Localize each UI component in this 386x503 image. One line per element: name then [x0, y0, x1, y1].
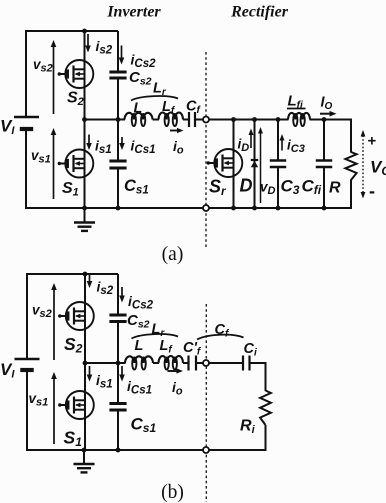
wire top rail (b)	[27, 273, 118, 275]
svg-text:Inverter: Inverter	[106, 4, 161, 21]
svg-text:D: D	[240, 176, 253, 196]
arrow vs2 (b)	[32, 283, 57, 360]
arrow vs1 (a)	[31, 128, 56, 199]
wire rectifier top rail (a)	[209, 119, 289, 121]
junction D top (a)	[252, 117, 257, 122]
wire Cfi branch (a)	[323, 120, 325, 161]
label Cf with brace (b)	[197, 322, 244, 340]
node top (b)	[203, 360, 209, 366]
wire D branch (a)	[254, 120, 256, 209]
dashed boundary (b)	[205, 304, 207, 502]
resistor R (a)	[329, 152, 357, 197]
capacitor Ci (b)	[243, 341, 257, 371]
wire left upper (b)	[26, 273, 28, 359]
capacitor Cs1 (b)	[109, 404, 156, 436]
wire R corner down (a)	[350, 119, 352, 153]
wire mid rail (b)	[85, 362, 126, 364]
junction mid S (b)	[83, 361, 88, 366]
junction bottom Cs1 (b)	[116, 448, 121, 453]
wire S1 branch (b)	[84, 363, 86, 450]
junction Cfi bottom (a)	[322, 206, 327, 211]
wire bottom rail (a)	[25, 207, 351, 209]
node top (a)	[203, 117, 209, 123]
capacitor Cf (a)	[186, 99, 201, 128]
wire mid rail (a)	[85, 119, 126, 121]
arrow iCs1 (b)	[119, 366, 152, 397]
inductor Lfi (a)	[287, 93, 310, 127]
wire S2 branch (b)	[84, 274, 86, 363]
wire Lfi-corner (a)	[310, 119, 352, 121]
capacitor Cs2 (a)	[109, 69, 151, 88]
junction Sr top (a)	[231, 117, 236, 122]
arrow vD (a)	[258, 127, 276, 203]
wire L-Lf (b)	[153, 362, 159, 364]
dashed boundary (a)	[205, 52, 207, 247]
capacitor Cfi (a)	[302, 161, 333, 198]
transistor Sr (a)	[207, 149, 243, 198]
wire Cs1 branch (a)	[117, 120, 119, 162]
junction Sr bottom (a)	[231, 206, 236, 211]
arrow VC (a)	[361, 130, 386, 201]
svg-text:L: L	[134, 101, 143, 117]
junction bottom gnd (a)	[82, 206, 87, 211]
svg-text:Rectifier: Rectifier	[230, 4, 289, 21]
wire top rail (a)	[26, 30, 118, 32]
battery Vi (b)	[0, 359, 40, 381]
transistor S2 (a)	[58, 60, 94, 108]
arrow io (b)	[168, 368, 184, 397]
inductor L (a)	[125, 101, 153, 127]
junction top S2 (a)	[82, 29, 87, 34]
arrow iCs2 (b)	[119, 287, 153, 312]
wire Cf-node (a)	[195, 119, 203, 121]
arrow is2 (a)	[85, 34, 113, 57]
wire Cs1 branch (b)	[117, 363, 119, 403]
svg-text:+: +	[368, 133, 377, 150]
wire Sr branch (a)	[233, 120, 235, 209]
transistor S1 (a)	[58, 150, 94, 199]
diode D (a)	[240, 160, 259, 196]
wire Lf-Cf (a)	[183, 119, 189, 121]
node bottom (a)	[203, 205, 209, 211]
resistor Ri (b)	[240, 391, 271, 437]
junction bottom gnd (b)	[82, 448, 87, 453]
wire Ri bottom (b)	[265, 425, 267, 451]
svg-text:(b): (b)	[161, 482, 184, 503]
arrow is1 (b)	[87, 366, 113, 391]
wire left lower (a)	[25, 129, 27, 209]
transistor S2 (b)	[58, 302, 94, 356]
arrow vs1 (b)	[29, 372, 57, 444]
arrow Io (a)	[320, 95, 337, 117]
inductor L (b)	[125, 338, 153, 370]
wire Cs2 branch (a)	[117, 31, 119, 72]
svg-text:-: -	[369, 181, 375, 201]
junction C3 top (a)	[276, 117, 281, 122]
inductor Lf (b)	[159, 338, 184, 370]
node bottom (b)	[203, 447, 209, 453]
junction mid Cs (a)	[116, 117, 121, 122]
junction D bottom (a)	[252, 206, 257, 211]
wire Ci-corner (b)	[250, 362, 266, 364]
junction C3 bottom (a)	[276, 206, 281, 211]
wire L-Lf (a)	[153, 119, 160, 121]
wire Cpf-node (b)	[196, 362, 203, 364]
wire S1 branch (a)	[84, 120, 86, 209]
arrow iC3 (a)	[280, 134, 305, 155]
ground (b)	[74, 450, 95, 472]
svg-text:L: L	[135, 338, 144, 354]
inductor Lf (a)	[159, 99, 184, 126]
arrow vs2 (a)	[33, 40, 56, 114]
junction bottom Cs1 (a)	[116, 206, 121, 211]
arrow iCs2 (a)	[119, 46, 156, 71]
wire R bottom (a)	[350, 180, 352, 210]
wire S2 branch (a)	[84, 31, 86, 120]
wire left upper (a)	[25, 30, 27, 117]
transistor S1 (b)	[58, 391, 94, 449]
label Lr with brace (b)	[132, 322, 179, 340]
wire C3 branch (a)	[277, 120, 279, 161]
wire Cs2 branch (b)	[117, 274, 119, 315]
capacitor Cs1 (a)	[109, 161, 148, 197]
capacitor C'f (b)	[183, 340, 202, 371]
junction Cfi top (a)	[322, 117, 327, 122]
svg-text:R: R	[329, 180, 341, 197]
arrow iD (a)	[238, 129, 254, 155]
arrow is2 (b)	[87, 275, 114, 297]
junction mid Cs (b)	[116, 361, 121, 366]
label Lr with brace (a)	[131, 81, 178, 101]
junction top S2 (b)	[83, 272, 88, 277]
ground (a)	[74, 208, 95, 231]
battery Vi (a)	[0, 117, 39, 138]
arrow is1 (a)	[86, 135, 111, 157]
wire bottom rail (b)	[26, 449, 266, 451]
arrow io (a)	[170, 128, 184, 157]
arrow iCs1 (a)	[119, 137, 155, 156]
capacitor Cs2 (b)	[109, 312, 149, 331]
wire node-Ci (b)	[209, 362, 243, 364]
wire left lower (b)	[26, 370, 28, 451]
svg-text:(a): (a)	[162, 244, 184, 265]
wire Lf-Cpf (b)	[183, 362, 189, 364]
capacitor C3 (a)	[270, 161, 300, 198]
junction mid S (a)	[82, 117, 87, 122]
